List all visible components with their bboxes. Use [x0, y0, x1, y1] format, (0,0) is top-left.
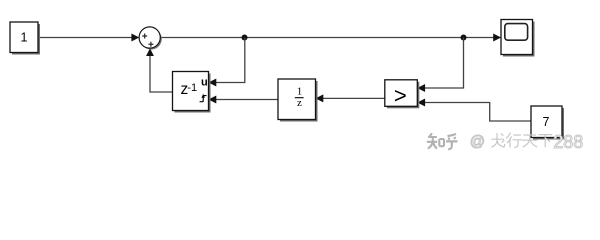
trigger icon (rising edge) [200, 96, 207, 102]
delay block z^-1 with u and trigger ports [173, 72, 211, 113]
svg-text:-1: -1 [187, 82, 197, 94]
龙 [491, 133, 504, 147]
arrowhead into delay u port [209, 79, 217, 87]
plus sign (south input) [148, 42, 153, 47]
svg-text:7: 7 [543, 115, 550, 129]
arrowhead into relational op input 1 [417, 84, 425, 92]
svg-text:1: 1 [297, 85, 303, 97]
unit delay block 1/z [278, 79, 318, 122]
fraction bar [295, 97, 304, 99]
arrowhead into delay trigger port [209, 96, 217, 104]
wire: const 7 to relational op input 2 [423, 103, 531, 122]
svg-text:z: z [297, 97, 302, 109]
arrowhead into sum (south) [146, 48, 154, 56]
wire: const 1 to sum [39, 37, 133, 39]
scope block [501, 20, 535, 57]
wire: junction2 down to relational op input 1 [423, 38, 464, 89]
乎 (filled gray) [446, 134, 458, 149]
arrowhead into scope [493, 34, 501, 42]
行 [506, 133, 522, 148]
constant block 1 [10, 22, 40, 55]
wire: 1/z output to delay trigger port [214, 99, 278, 101]
wire: sum to scope (top rail) [160, 37, 494, 39]
svg-text:288: 288 [553, 132, 583, 152]
node: junction 2 [461, 35, 467, 41]
sum junction [139, 27, 162, 50]
node: junction 1 [242, 35, 248, 41]
plus sign (west input) [142, 34, 147, 39]
svg-text:>: > [394, 83, 407, 108]
constant block 7 [531, 106, 564, 140]
svg-text:1: 1 [21, 31, 28, 45]
arrowhead into 1/z [316, 94, 324, 102]
下 [539, 135, 553, 148]
wire: delay output feedback to sum [150, 54, 173, 92]
svg-text:u: u [201, 76, 208, 88]
arrowhead into relational op input 2 [417, 99, 425, 107]
wire: relational op output to unit delay 1/z [321, 97, 385, 99]
watermark 知乎 @龙行天下288 [427, 132, 583, 152]
arrowhead into sum (west) [131, 34, 139, 42]
知 (filled gray) [427, 133, 444, 148]
wire: junction1 down to delay u port [214, 38, 245, 83]
relational operator block > [385, 80, 420, 109]
天 [522, 135, 537, 147]
svg-text:@: @ [470, 133, 485, 150]
scope screen [505, 24, 528, 41]
